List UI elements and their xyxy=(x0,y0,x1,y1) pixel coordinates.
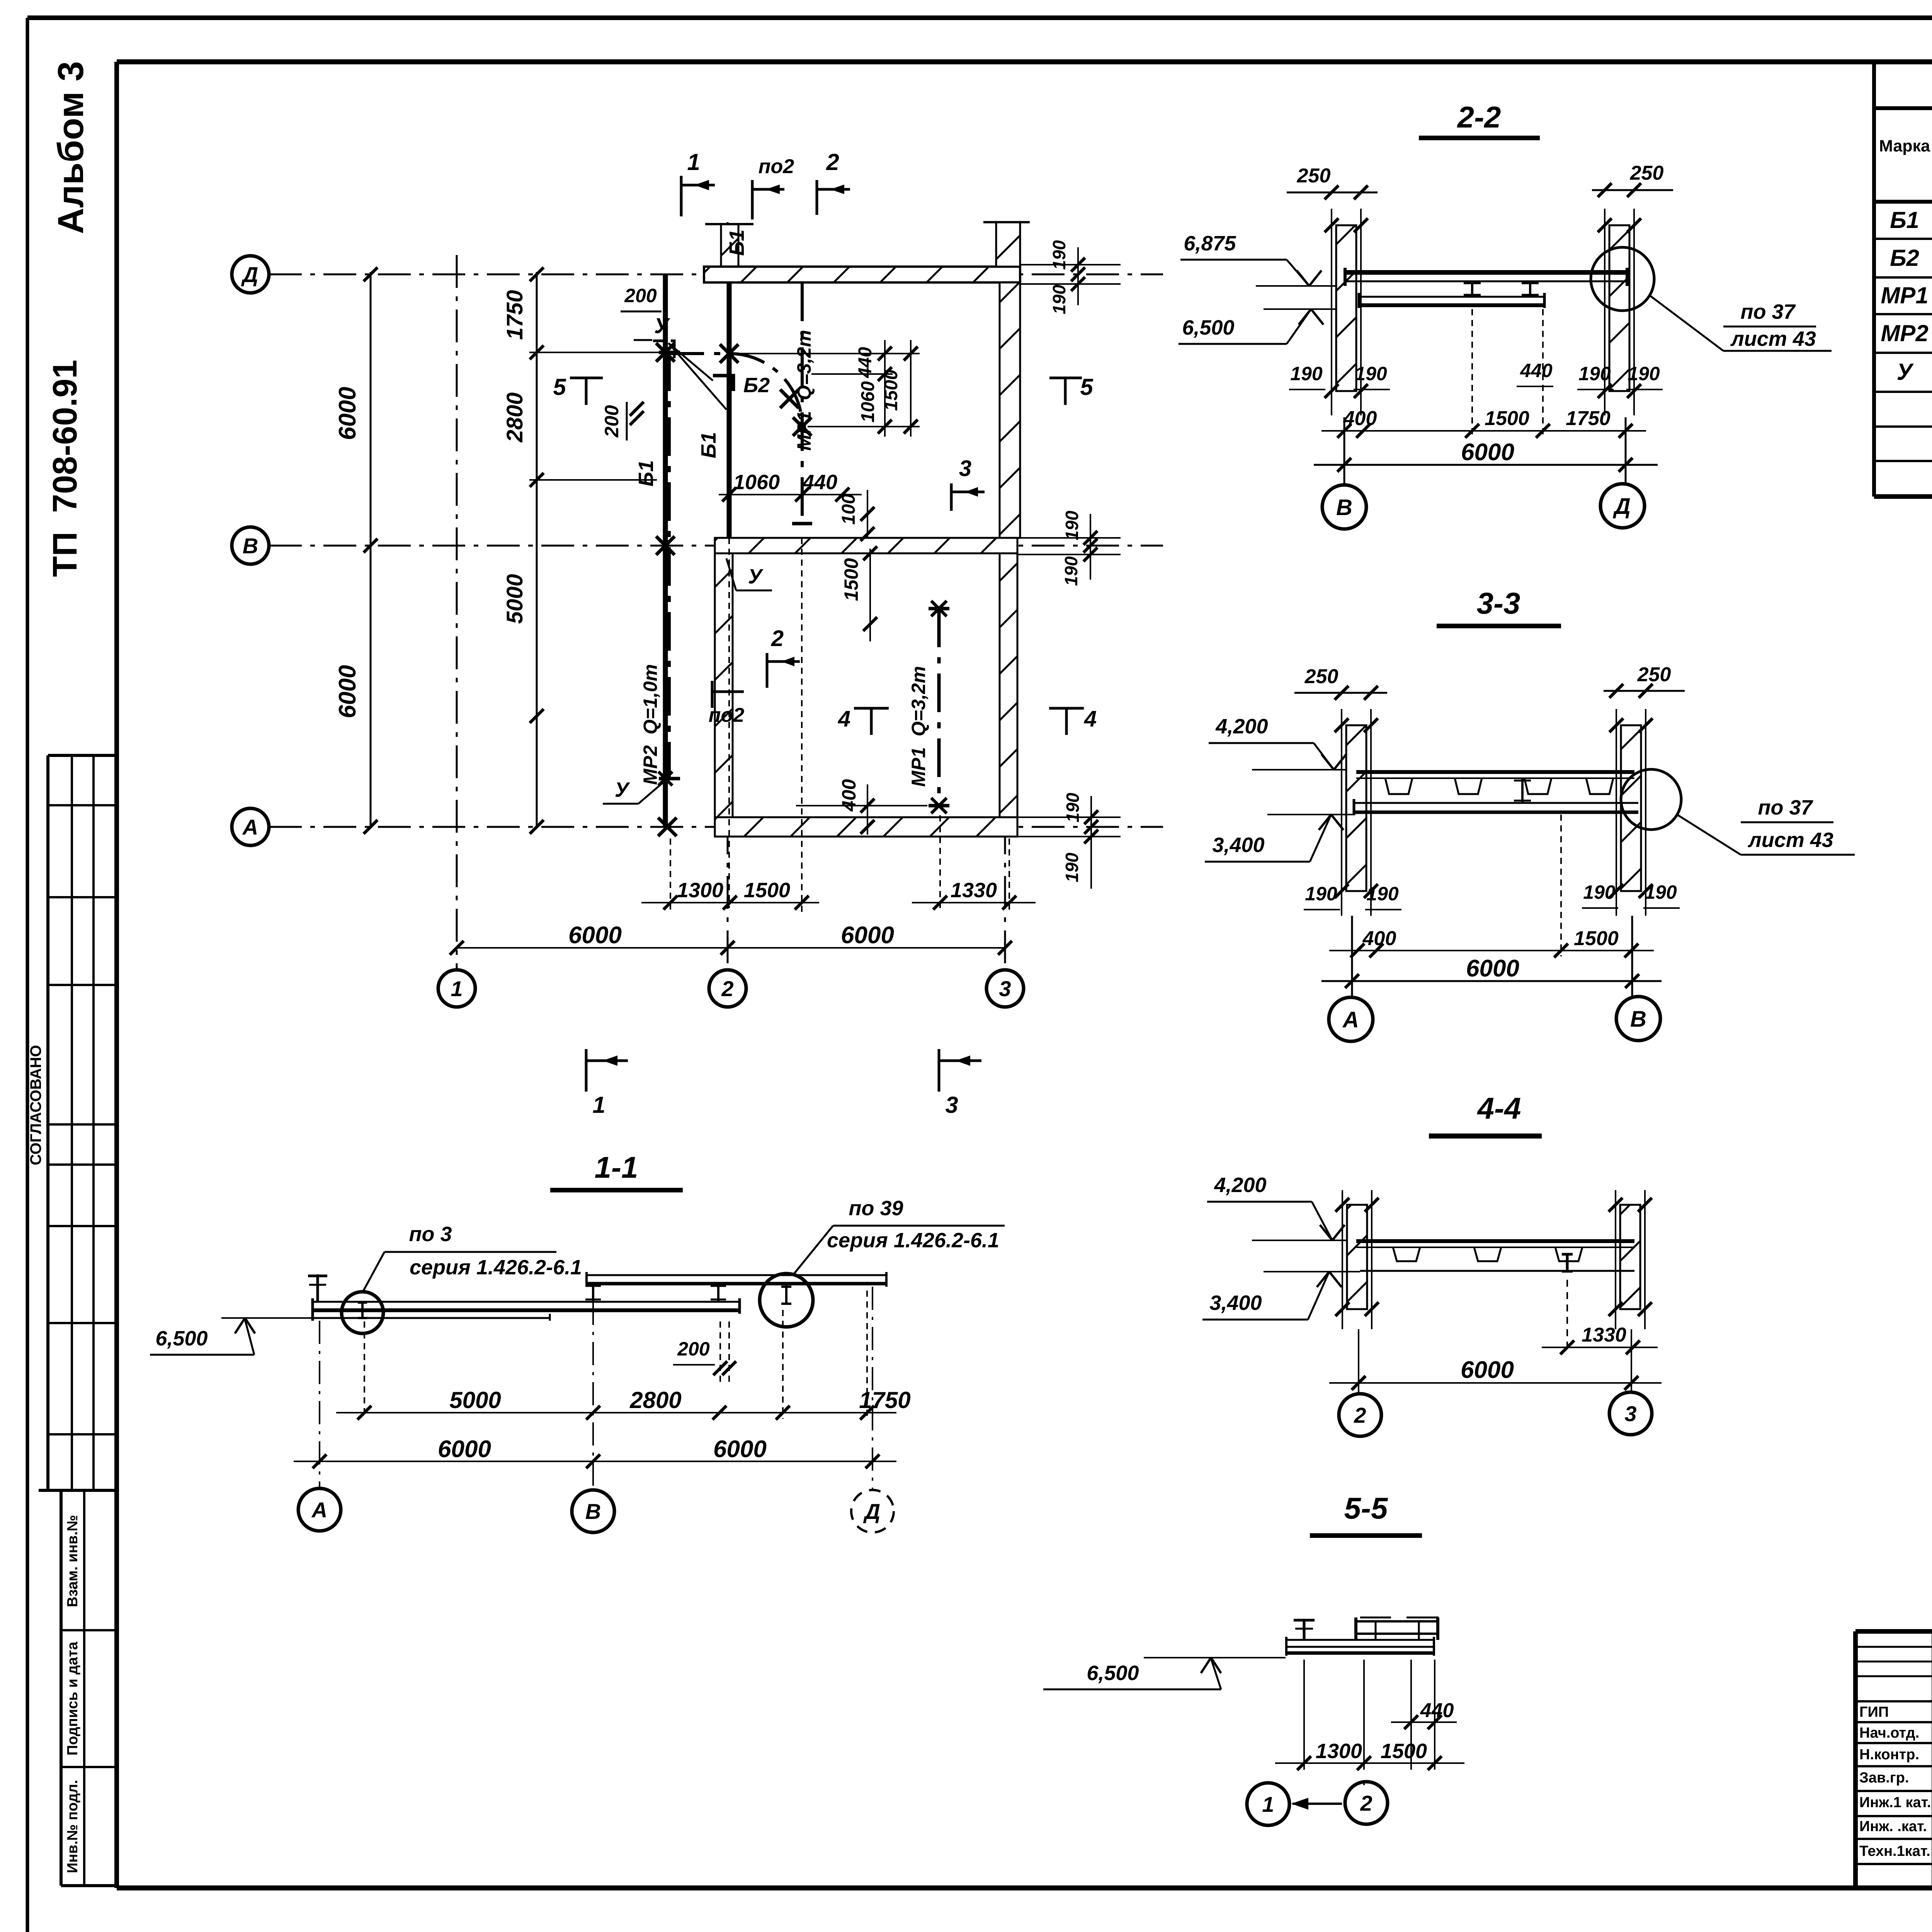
svg-text:6000: 6000 xyxy=(713,1436,767,1463)
section 2-2 detail circle xyxy=(1591,247,1654,311)
section 4-4 grid verticals xyxy=(1358,1329,1359,1391)
drawing frame left xyxy=(114,62,119,1888)
svg-text:Подпись и дата: Подпись и дата xyxy=(65,1641,81,1755)
section 2-2 dimension line 400/1500/1750 xyxy=(1321,430,1646,432)
svg-text:А: А xyxy=(242,815,258,839)
section 2-2 beam Б1 xyxy=(1345,270,1628,275)
section 3-3 grid verticals xyxy=(1351,916,1353,998)
svg-text:1330: 1330 xyxy=(951,879,997,902)
svg-text:МР2: МР2 xyxy=(1881,320,1928,346)
section marker 2 top xyxy=(816,180,818,215)
dimension 1060/440 row (upper mid) xyxy=(719,494,862,495)
section 4-4 wall left xyxy=(1347,1205,1367,1309)
extension line at 1242 xyxy=(529,479,657,481)
svg-text:У: У xyxy=(654,313,670,338)
wall right of lower room xyxy=(1000,553,1017,817)
svg-text:190: 190 xyxy=(1366,883,1399,905)
svg-text:3: 3 xyxy=(1624,1401,1636,1426)
svg-text:ГИП: ГИП xyxy=(1859,1704,1889,1720)
svg-text:Инж.1 кат.: Инж.1 кат. xyxy=(1859,1794,1931,1811)
section 1-1 grid circle Д dashed xyxy=(851,1490,894,1532)
section 3-3 dimension 6000 xyxy=(1321,980,1662,982)
svg-text:3,400: 3,400 xyxy=(1209,1291,1262,1315)
svg-text:Б1: Б1 xyxy=(1890,207,1919,233)
svg-text:Н.контр.: Н.контр. xyxy=(1859,1747,1919,1763)
svg-text:250: 250 xyxy=(1637,663,1671,686)
svg-text:2: 2 xyxy=(721,976,733,1001)
connection x-marks xyxy=(656,343,675,362)
svg-text:250: 250 xyxy=(1304,665,1338,688)
section 4-4 grid circle 2 xyxy=(1339,1394,1381,1436)
svg-text:по 39: по 39 xyxy=(849,1197,903,1220)
svg-text:4,200: 4,200 xyxy=(1215,715,1268,738)
title block signature columns xyxy=(1932,1631,1932,1888)
section 1-1 grid circle А xyxy=(298,1488,341,1531)
svg-text:1330: 1330 xyxy=(1582,1324,1626,1346)
section 5-5 dimension verticals xyxy=(1303,1660,1305,1770)
svg-text:190: 190 xyxy=(1645,881,1677,903)
monorail МР1 upper room xyxy=(801,282,804,524)
svg-text:1500: 1500 xyxy=(840,558,862,601)
section marker 1 top xyxy=(680,176,683,216)
dimension 1300/1500 bottom xyxy=(641,902,819,903)
section 2-2 grid verticals xyxy=(1344,417,1345,485)
section 3-3 wall right xyxy=(1621,725,1641,891)
svg-text:серия 1.426.2-6.1: серия 1.426.2-6.1 xyxy=(410,1256,582,1279)
svg-text:190: 190 xyxy=(1583,881,1616,903)
section 1-1 lower beam xyxy=(312,1301,740,1303)
title block signature rows xyxy=(1855,1646,1932,1648)
section 2-2 wall left xyxy=(1336,225,1356,391)
svg-text:Б1: Б1 xyxy=(634,460,658,486)
left margin strip cap xyxy=(39,1489,117,1492)
svg-text:1: 1 xyxy=(687,149,700,175)
wall band row А xyxy=(715,817,1017,837)
svg-text:6000: 6000 xyxy=(334,665,361,718)
svg-text:1: 1 xyxy=(1262,1792,1274,1816)
svg-text:5000: 5000 xyxy=(502,574,527,624)
svg-text:1-1: 1-1 xyxy=(595,1150,638,1184)
grid line А xyxy=(269,826,1163,828)
grid circle 1 xyxy=(438,970,475,1007)
section 5-5 monorail cross assembly xyxy=(1355,1620,1439,1622)
dimension line 1750/2800/5000 xyxy=(536,272,538,827)
section 1-1 detail circle left xyxy=(342,1292,383,1333)
svg-text:1: 1 xyxy=(592,1092,605,1118)
dimension 190/190 at row А xyxy=(1090,796,1092,889)
svg-text:2: 2 xyxy=(1360,1791,1372,1815)
svg-text:2800: 2800 xyxy=(629,1387,681,1413)
svg-text:6,500: 6,500 xyxy=(1182,316,1234,339)
svg-text:400: 400 xyxy=(1362,927,1396,950)
section 5-5 marker arrow xyxy=(1293,1803,1342,1805)
svg-text:200: 200 xyxy=(677,1338,710,1360)
svg-text:6,875: 6,875 xyxy=(1184,232,1236,255)
wall top band (row Д) xyxy=(704,267,1020,282)
svg-text:В: В xyxy=(1630,1007,1646,1032)
section 4-4 beam with deck xyxy=(1356,1239,1634,1243)
section marker 3 bottom xyxy=(938,1049,940,1092)
section 3-3 detail circle xyxy=(1621,769,1681,830)
svg-text:400: 400 xyxy=(838,779,860,812)
svg-text:У: У xyxy=(748,565,764,588)
left margin lower table xyxy=(60,1492,63,1886)
sheet outer border left xyxy=(26,18,29,1932)
section marker 5 left xyxy=(570,377,603,379)
svg-text:Марка: Марка xyxy=(1879,137,1930,155)
section 2-2 monorail xyxy=(1359,296,1545,298)
svg-text:по2: по2 xyxy=(759,155,794,178)
svg-text:1750: 1750 xyxy=(502,290,527,340)
grid circle 3 xyxy=(986,970,1024,1007)
section 4-4 wall right xyxy=(1620,1205,1640,1309)
wall stub top left (grid 2) xyxy=(721,224,738,267)
svg-text:1500: 1500 xyxy=(1485,407,1529,430)
beam Б2 curve to МР1 xyxy=(729,354,802,427)
svg-text:Техн.1кат.: Техн.1кат. xyxy=(1859,1843,1930,1859)
svg-text:5000: 5000 xyxy=(449,1387,501,1413)
grid line В xyxy=(269,545,1163,547)
svg-text:Инв.№ подл.: Инв.№ подл. xyxy=(65,1780,81,1873)
dimensions 440/1060/1500 right of curve xyxy=(884,340,886,437)
monorail МР2 xyxy=(668,352,671,779)
svg-text:190: 190 xyxy=(1062,852,1082,882)
corner angle У upper xyxy=(653,341,674,358)
svg-text:200: 200 xyxy=(601,405,622,438)
svg-text:6,500: 6,500 xyxy=(1087,1662,1139,1685)
svg-text:Б1: Б1 xyxy=(725,230,748,256)
section 2-2 wall right xyxy=(1609,225,1629,391)
grid circle А xyxy=(232,808,269,845)
vedomost table frame xyxy=(1872,61,1876,497)
svg-text:250: 250 xyxy=(1297,165,1331,187)
section 4-4 lower chord xyxy=(1360,1270,1634,1272)
svg-text:190: 190 xyxy=(1305,883,1337,905)
section 5-5 beam xyxy=(1286,1639,1435,1641)
svg-text:190: 190 xyxy=(1049,284,1069,314)
section 4-4 dimension 1330 xyxy=(1566,1280,1568,1352)
wall band row В xyxy=(715,538,1017,553)
svg-text:5: 5 xyxy=(553,374,566,400)
wall stub top right (grid 3) xyxy=(996,222,1020,267)
svg-text:Б2: Б2 xyxy=(1890,245,1919,271)
vertical extension from Б1 middle xyxy=(728,538,730,908)
section 4-4 dimension 6000 xyxy=(1329,1382,1662,1384)
svg-text:ТП 708-60.91: ТП 708-60.91 xyxy=(46,360,84,577)
svg-text:Взам. инв.№: Взам. инв.№ xyxy=(65,1515,81,1607)
section marker 4 left xyxy=(854,707,889,710)
section 3-3 detail leader по 37 лист 43 xyxy=(1677,815,1741,855)
section marker 5 right xyxy=(1049,377,1082,379)
svg-text:400: 400 xyxy=(1343,407,1377,430)
svg-text:6000: 6000 xyxy=(438,1436,491,1463)
svg-text:1500: 1500 xyxy=(744,879,790,902)
svg-text:3: 3 xyxy=(945,1092,958,1118)
section marker 1 bottom xyxy=(585,1049,588,1092)
dimension line 6000/6000 left xyxy=(370,272,372,827)
section marker 3 (upper room) xyxy=(950,483,953,511)
svg-text:1300: 1300 xyxy=(1316,1740,1362,1763)
svg-text:3: 3 xyxy=(959,456,971,481)
section marker 4 right xyxy=(1049,707,1084,710)
svg-text:190: 190 xyxy=(1578,363,1611,384)
grid circle 2 xyxy=(709,970,746,1007)
left margin upper table xyxy=(46,755,49,1490)
svg-text:1500: 1500 xyxy=(1574,927,1619,950)
svg-text:5: 5 xyxy=(1080,374,1094,400)
svg-text:1300: 1300 xyxy=(677,879,723,902)
svg-text:1: 1 xyxy=(451,976,463,1001)
beam Б1 middle (grid 2) xyxy=(727,282,732,538)
svg-text:по 37: по 37 xyxy=(1740,300,1796,323)
svg-text:А: А xyxy=(1342,1007,1359,1032)
svg-text:190: 190 xyxy=(1290,363,1323,384)
dimension 190/190 at row Д xyxy=(1077,247,1079,305)
svg-text:Альбом 3: Альбом 3 xyxy=(50,61,91,234)
svg-text:2: 2 xyxy=(826,149,839,175)
dimension 1330 bottom xyxy=(912,902,1036,903)
svg-text:2800: 2800 xyxy=(502,392,527,442)
svg-text:лист 43: лист 43 xyxy=(1747,828,1833,852)
section 2-2 grid circle Д xyxy=(1600,484,1645,528)
svg-text:по2: по2 xyxy=(709,704,745,726)
svg-text:6000: 6000 xyxy=(334,387,361,440)
section 4-4 I-beam symbol xyxy=(1566,1254,1569,1271)
section 3-3 grid circle В xyxy=(1616,997,1660,1041)
section 1-1 hangers xyxy=(592,1284,594,1302)
wall right of upper room xyxy=(1000,282,1020,538)
svg-text:4: 4 xyxy=(838,706,850,731)
sheet outer border top xyxy=(27,15,1932,20)
svg-text:У: У xyxy=(1897,359,1914,385)
svg-text:6000: 6000 xyxy=(1466,955,1519,982)
section 4-4 grid circle 3 xyxy=(1609,1392,1652,1435)
svg-text:3-3: 3-3 xyxy=(1477,586,1520,620)
dimension 190/190 at row В xyxy=(1090,514,1091,580)
svg-text:по 3: по 3 xyxy=(409,1223,452,1246)
drawing frame bottom xyxy=(117,1886,1932,1891)
grid circle Д xyxy=(232,256,269,293)
svg-text:2: 2 xyxy=(1354,1403,1366,1427)
svg-text:190: 190 xyxy=(1355,363,1387,384)
svg-text:Б1: Б1 xyxy=(697,432,720,458)
svg-text:1060: 1060 xyxy=(733,471,780,494)
svg-text:190: 190 xyxy=(1062,510,1082,540)
section 2-2 hangers xyxy=(1471,281,1473,297)
section 3-3 wall left xyxy=(1346,725,1366,891)
section 3-3 monorail xyxy=(1354,802,1638,804)
section 1-1 grid verticals xyxy=(319,1321,320,1488)
svg-text:440: 440 xyxy=(1520,360,1553,381)
svg-text:6000: 6000 xyxy=(1461,1357,1514,1383)
svg-text:1060: 1060 xyxy=(858,381,878,422)
section 1-1 dimension 6000/6000 xyxy=(294,1461,896,1462)
grid line 2 xyxy=(727,222,729,970)
section 1-1 dimension 5000/2800/1750 xyxy=(336,1412,896,1413)
svg-text:190: 190 xyxy=(1061,556,1081,586)
section 5-5 dimension 1300/1500 xyxy=(1275,1762,1464,1764)
svg-text:серия 1.426.2-6.1: серия 1.426.2-6.1 xyxy=(827,1229,999,1252)
svg-text:250: 250 xyxy=(1630,162,1664,184)
svg-text:2-2: 2-2 xyxy=(1457,100,1501,134)
svg-text:100: 100 xyxy=(838,494,859,525)
section 5-5 bolt xyxy=(1303,1619,1306,1640)
section 5-5 grid circle 1 xyxy=(1247,1783,1289,1825)
svg-text:1750: 1750 xyxy=(1566,407,1611,430)
grid line 3 xyxy=(1004,222,1006,970)
wall left of lower room xyxy=(715,553,733,817)
monorail МР1 lower room xyxy=(937,609,941,806)
grid line Д xyxy=(269,274,1163,276)
section 3-3 dimension 400/1500 xyxy=(1329,950,1654,951)
svg-text:4: 4 xyxy=(1084,706,1097,731)
svg-text:4-4: 4-4 xyxy=(1477,1091,1521,1125)
svg-text:СОГЛАСОВАНО: СОГЛАСОВАНО xyxy=(27,1045,44,1165)
svg-text:440: 440 xyxy=(802,471,837,494)
svg-text:МР1: МР1 xyxy=(1881,282,1928,308)
svg-text:В: В xyxy=(585,1499,601,1524)
section 1-1 detail circle right xyxy=(760,1274,813,1327)
svg-text:В: В xyxy=(1336,495,1352,520)
svg-text:Нач.отд.: Нач.отд. xyxy=(1859,1725,1919,1741)
beam Б1 long (left) xyxy=(663,275,668,827)
svg-text:5-5: 5-5 xyxy=(1344,1491,1388,1525)
section 2-2 dimension 6000 xyxy=(1314,464,1658,466)
section 3-3 beam with deck xyxy=(1356,770,1634,774)
svg-text:6000: 6000 xyxy=(568,922,622,949)
title block frame xyxy=(1855,1629,1932,1634)
svg-text:Д: Д xyxy=(241,262,258,287)
svg-text:6000: 6000 xyxy=(1461,439,1514,466)
grid circle В xyxy=(232,527,269,564)
dimension 6000/6000 bottom xyxy=(457,947,1005,949)
vedomost row lines xyxy=(1874,238,1932,240)
section 5-5 grid circle 2 xyxy=(1345,1782,1388,1824)
section 1-1 upper beam xyxy=(586,1274,887,1276)
svg-text:4,200: 4,200 xyxy=(1214,1173,1266,1197)
section marker 2 (lower room) xyxy=(766,653,769,688)
svg-text:по 37: по 37 xyxy=(1758,796,1813,819)
section 3-3 hanger xyxy=(1521,778,1524,803)
svg-text:1500: 1500 xyxy=(881,369,901,411)
svg-text:Д: Д xyxy=(1612,494,1631,519)
section 1-1 grid circle В xyxy=(572,1490,614,1532)
svg-text:лист 43: лист 43 xyxy=(1730,327,1816,350)
svg-text:3: 3 xyxy=(999,976,1011,1001)
svg-text:6,500: 6,500 xyxy=(155,1327,207,1350)
section 3-3 grid circle А xyxy=(1329,997,1373,1041)
svg-text:190: 190 xyxy=(1628,363,1660,384)
svg-text:2: 2 xyxy=(771,626,784,651)
svg-text:200: 200 xyxy=(624,285,657,306)
grid line 1 xyxy=(456,255,458,970)
svg-text:1500: 1500 xyxy=(1381,1740,1427,1763)
svg-text:3,400: 3,400 xyxy=(1212,833,1264,857)
svg-text:Инж. .кат.: Инж. .кат. xyxy=(1859,1818,1927,1835)
svg-text:В: В xyxy=(243,534,258,558)
svg-text:Б2: Б2 xyxy=(743,374,770,397)
drawing frame top xyxy=(117,60,1932,65)
svg-text:Зав.гр.: Зав.гр. xyxy=(1859,1770,1909,1786)
extension line at 912 xyxy=(529,352,672,353)
svg-text:Д: Д xyxy=(863,1499,880,1524)
section 2-2 detail leader по 37 лист 43 xyxy=(1650,296,1723,351)
svg-text:У: У xyxy=(615,778,630,801)
section 2-2 grid circle В xyxy=(1322,485,1366,529)
svg-text:МР1 Q=3,2т: МР1 Q=3,2т xyxy=(908,666,929,787)
svg-text:А: А xyxy=(311,1498,327,1522)
svg-text:МР2 Q=1,0т: МР2 Q=1,0т xyxy=(639,664,661,785)
beam Б2 horizontal segment xyxy=(665,352,729,355)
section 1-1 bolt left xyxy=(316,1274,319,1302)
svg-text:6000: 6000 xyxy=(841,922,894,949)
